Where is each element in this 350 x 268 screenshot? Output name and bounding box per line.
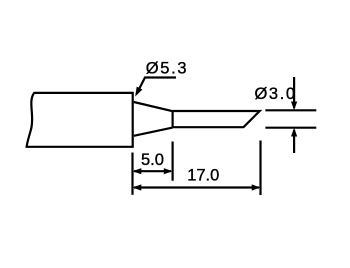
- svg-text:Ø3.0: Ø3.0: [255, 85, 297, 103]
- up arrow for Ø3.0: [293, 130, 295, 153]
- tip rod with bevel point: [173, 111, 260, 127]
- dimension line 5.0: [134, 170, 171, 172]
- dimension line 17.0: [134, 186, 259, 188]
- lower extension line for Ø3.0: [265, 127, 316, 129]
- taper cone: [134, 102, 173, 136]
- down arrow for Ø3.0: [293, 77, 295, 108]
- leader line for Ø5.3: [137, 78, 177, 95]
- extension line at taper end: [172, 142, 174, 181]
- extension line at tip end: [259, 141, 261, 196]
- svg-text:Ø5.3: Ø5.3: [146, 60, 189, 78]
- svg-text:5.0: 5.0: [141, 151, 164, 169]
- extension line at taper start: [131, 153, 133, 195]
- iron body barrel with break line: [27, 93, 133, 147]
- upper extension line for Ø3.0: [265, 109, 316, 111]
- leader arrowhead: [135, 87, 142, 97]
- svg-text:17.0: 17.0: [187, 167, 219, 185]
